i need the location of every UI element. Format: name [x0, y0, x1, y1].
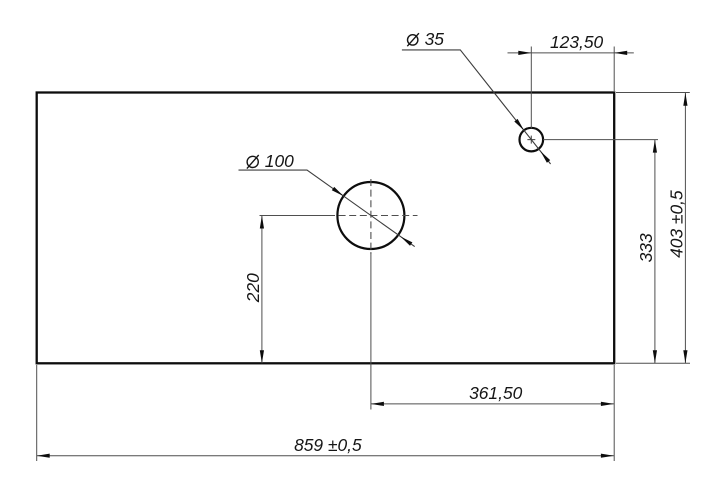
centerline D100 vertical dashed: [370, 179, 372, 254]
arrow 403 bottom: [683, 350, 687, 363]
svg-text:220: 220: [243, 273, 263, 303]
arrow leader D100 upper: [332, 187, 344, 196]
svg-text:333: 333: [636, 233, 656, 262]
hole D35: [520, 128, 544, 152]
extension line bottom-right corner down: [613, 365, 615, 461]
dimension 123,50 line: [508, 52, 634, 54]
arrow 123,50 left: [518, 51, 531, 55]
dimension 361,50 line: [371, 403, 614, 405]
leader D100: [239, 170, 415, 247]
arrow 333 bottom: [653, 350, 657, 363]
centermark D35: [527, 139, 535, 141]
label D35 symbol: [408, 35, 418, 45]
svg-text:100: 100: [265, 151, 294, 171]
arrow 220 bottom: [260, 350, 264, 363]
plate outline: [37, 93, 615, 364]
extension line D35 center up to dim 123,50: [530, 47, 532, 129]
svg-text:361,50: 361,50: [469, 383, 523, 403]
centerline D100 horizontal dashed: [328, 215, 418, 217]
extension line bottom-right corner right: [616, 362, 690, 364]
arrow leader D100 lower: [401, 237, 413, 246]
arrow 403 top: [683, 93, 687, 106]
extension line D35 center right: [543, 139, 658, 141]
extension line D100 center down to dim 361,50: [370, 252, 372, 410]
arrow leader D35 lower: [541, 151, 551, 163]
svg-text:403 ±0,5: 403 ±0,5: [667, 190, 687, 258]
arrow 333 top: [653, 140, 657, 153]
dimension 333 line: [654, 140, 656, 364]
svg-text:859 ±0,5: 859 ±0,5: [294, 435, 362, 455]
extension line top-right corner right: [616, 92, 690, 94]
hole D100: [337, 182, 404, 249]
arrow leader D35 upper: [514, 119, 524, 130]
extension line top-right corner up: [613, 47, 615, 92]
arrow 361,50 right: [601, 402, 614, 406]
dimension 403 line: [684, 93, 686, 364]
extension line bottom-left corner down: [36, 365, 38, 461]
arrow 361,50 left: [371, 402, 384, 406]
dimension 859 line: [37, 455, 614, 457]
label D100 symbol: [247, 156, 258, 167]
svg-text:35: 35: [425, 29, 445, 49]
svg-text:123,50: 123,50: [550, 32, 604, 52]
extension line D100 center left: [260, 215, 333, 217]
arrow 123,50 right: [614, 51, 627, 55]
arrow 220 top: [260, 216, 264, 229]
arrow 859 left: [37, 454, 50, 458]
arrow 859 right: [601, 454, 614, 458]
leader D35: [402, 50, 551, 164]
dimension 220 line: [261, 216, 263, 364]
